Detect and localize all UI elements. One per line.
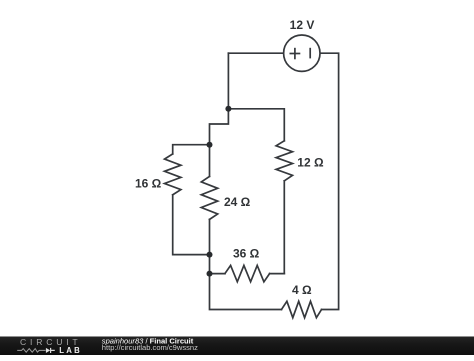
svg-text:24 Ω: 24 Ω [224, 195, 251, 209]
wire node D down to bottom rail [210, 274, 282, 310]
wire bottom rail right and up to source plus terminal [320, 53, 339, 309]
resistor R5 4-ohm zigzag [282, 301, 322, 317]
wire node C down to node D [209, 255, 211, 274]
node A junction dot [225, 106, 231, 112]
svg-text:http://circuitlab.com/c9wssnz: http://circuitlab.com/c9wssnz [102, 343, 198, 352]
voltage source V1 minus bar [309, 48, 311, 59]
wire 16-ohm bottom down and right to node C [173, 195, 210, 255]
wire node D right to 36-ohm left end [210, 273, 225, 275]
resistor R3 12-ohm zigzag [276, 141, 292, 181]
svg-text:4 Ω: 4 Ω [292, 283, 312, 297]
resistor R2 24-ohm zigzag [201, 176, 217, 219]
wire node B down to 24-ohm top [209, 145, 211, 177]
footer bar [0, 336, 474, 355]
svg-text:12 V: 12 V [290, 18, 315, 32]
node C junction dot [207, 252, 213, 258]
wire node B left to 16-ohm top [173, 145, 210, 154]
CircuitLab logo diode bar and lead [51, 348, 55, 353]
wire left vertical from source corner down to node A [227, 53, 229, 109]
wire node A to 12-ohm branch top [228, 109, 284, 141]
node B junction dot [207, 142, 213, 148]
node D junction dot [207, 271, 213, 277]
svg-text:12 Ω: 12 Ω [297, 156, 324, 170]
CircuitLab logo resistor zigzag [17, 349, 45, 353]
wire 12-ohm bottom down to 36-ohm right end [283, 181, 285, 274]
svg-text:LAB: LAB [59, 346, 82, 355]
resistor R1 16-ohm zigzag [165, 154, 181, 195]
voltage source V1 circle [284, 35, 320, 71]
resistor R4 36-ohm zigzag [225, 265, 270, 281]
CircuitLab logo diode triangle [46, 348, 50, 353]
svg-text:16 Ω: 16 Ω [135, 177, 162, 191]
wire 36-ohm right end to 12-ohm branch [270, 273, 285, 275]
wire top horizontal left of source [228, 52, 283, 54]
wire step from node A down-left to node B [210, 109, 229, 145]
svg-text:36 Ω: 36 Ω [233, 247, 260, 261]
voltage source V1 plus sign [290, 48, 311, 60]
wire 24-ohm bottom to node C [209, 219, 211, 254]
